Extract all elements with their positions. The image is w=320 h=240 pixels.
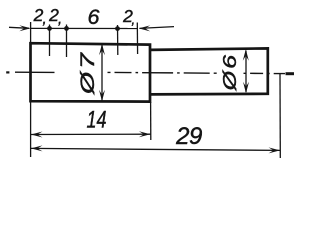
centerline left segment <box>15 71 55 73</box>
svg-text:,: , <box>58 11 62 28</box>
diameter dimension line Ø7 <box>101 45 103 101</box>
arrowhead right pointing left <box>139 25 151 31</box>
top chain dimension line <box>31 27 138 29</box>
svg-text:Ø6: Ø6 <box>219 53 240 91</box>
extension line at 12 <box>136 23 138 55</box>
top dimension right outside tail <box>140 27 175 29</box>
centerline end dash <box>286 72 295 75</box>
arrowhead down <box>99 90 105 102</box>
dimension line 14 <box>31 133 151 135</box>
extension line at 10 <box>117 25 119 55</box>
extension line right of 14 <box>150 102 152 140</box>
arrowhead up <box>243 49 249 61</box>
arrowhead up <box>99 44 105 56</box>
svg-text:6: 6 <box>88 5 100 29</box>
centerline right segment <box>244 72 286 74</box>
svg-text:14: 14 <box>87 107 107 134</box>
arrowhead 14 left <box>31 132 43 138</box>
arrowhead 29 left <box>31 145 43 151</box>
dimension line 29 <box>31 148 280 150</box>
extension line right of 29 <box>279 74 281 159</box>
arrowhead 14 right <box>139 131 151 137</box>
left extension line (common for top chain, 14 and 29) <box>30 22 32 157</box>
centerline middle segment <box>108 71 219 74</box>
centerline start dot <box>6 71 9 73</box>
arrowhead down <box>243 82 249 94</box>
svg-text:,: , <box>43 11 47 28</box>
arrowhead left pointing right <box>19 25 31 31</box>
svg-text:29: 29 <box>175 123 202 150</box>
svg-text:,: , <box>132 12 136 27</box>
chain dot 2 <box>64 26 69 31</box>
chain dot 1 <box>47 26 52 31</box>
chain dot 3 <box>115 26 120 31</box>
arrowhead 29 right <box>269 147 281 153</box>
extension line at 4 <box>66 25 68 58</box>
diameter dimension line Ø6 <box>245 51 247 93</box>
svg-text:Ø7: Ø7 <box>78 50 99 95</box>
small cylinder body Ø6 <box>150 48 268 94</box>
top dimension left outside tail <box>9 27 29 28</box>
extension line at 2 <box>49 25 51 57</box>
big cylinder body Ø7x14 <box>31 43 151 101</box>
